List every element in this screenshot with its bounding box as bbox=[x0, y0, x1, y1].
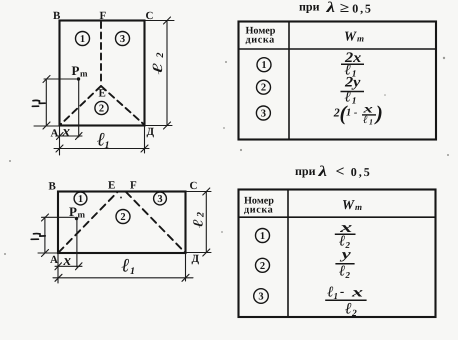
svg-text:m: m bbox=[80, 69, 88, 79]
svg-text:2: 2 bbox=[260, 261, 265, 272]
wire horizontal at Pm level bbox=[44, 78, 77, 80]
svg-text:-: - bbox=[340, 284, 344, 299]
svg-text:2: 2 bbox=[120, 212, 125, 223]
svg-text:<: < bbox=[336, 164, 345, 180]
svg-text:F: F bbox=[130, 180, 137, 192]
table 2 disk 1 bbox=[256, 229, 270, 243]
svg-text:C: C bbox=[190, 180, 198, 192]
svg-text:B: B bbox=[53, 10, 61, 22]
svg-text:1: 1 bbox=[78, 194, 83, 205]
svg-text:E: E bbox=[99, 88, 106, 100]
table 1 column divider bbox=[288, 22, 290, 140]
svg-text:W: W bbox=[344, 28, 357, 43]
svg-text:1: 1 bbox=[260, 231, 265, 242]
point Pm (d2) bbox=[75, 217, 78, 220]
svg-text:ℓ: ℓ bbox=[345, 301, 352, 318]
svg-text:x: x bbox=[350, 286, 363, 301]
dimension x (d1) bbox=[56, 135, 82, 137]
svg-text:B: B bbox=[49, 181, 57, 193]
disk number 1 (d2) bbox=[74, 192, 87, 205]
dimension x (d2) bbox=[55, 265, 82, 267]
svg-text:m: m bbox=[357, 34, 364, 44]
svg-text:ℓ: ℓ bbox=[122, 256, 130, 277]
svg-text:2: 2 bbox=[261, 83, 266, 94]
svg-text:1: 1 bbox=[80, 34, 85, 45]
svg-text:2: 2 bbox=[155, 53, 166, 59]
table 1 header underline bbox=[239, 48, 437, 50]
scan noise specks bbox=[4, 57, 449, 255]
wire Pm vertical thin line (d2) bbox=[76, 220, 78, 268]
bottom edge extension right (d1) bbox=[145, 125, 172, 127]
svg-text:λ: λ bbox=[325, 0, 335, 16]
label l2 (d2) bbox=[192, 212, 207, 228]
disk number 1 (d1) bbox=[76, 32, 90, 46]
dashed line A-E (d2) bbox=[59, 192, 118, 253]
disk number 2 (d2) bbox=[116, 210, 130, 224]
svg-text:ℓ: ℓ bbox=[192, 219, 207, 228]
dashed line E-A bbox=[60, 86, 101, 125]
extension lines below (d1) bbox=[59, 126, 61, 155]
table 1 disk 2 bbox=[257, 80, 271, 94]
svg-text:Д: Д bbox=[192, 253, 200, 265]
svg-text:1: 1 bbox=[352, 97, 357, 107]
svg-text:при: при bbox=[295, 164, 316, 178]
bottom edge extension left (d2) bbox=[38, 252, 58, 254]
svg-text:λ: λ bbox=[317, 164, 327, 180]
top edge extension right (d2) bbox=[186, 191, 211, 193]
dimension l1 (d1) bbox=[54, 148, 149, 150]
rectangle ABCD (diagram 1) bbox=[60, 21, 145, 126]
svg-text:1: 1 bbox=[105, 140, 110, 151]
dimension l2 (d2) bbox=[205, 192, 207, 253]
svg-text:ℓ: ℓ bbox=[363, 114, 368, 126]
svg-text:ℓ: ℓ bbox=[151, 62, 166, 74]
svg-text:2у: 2у bbox=[344, 75, 361, 91]
table 1 disk 3 bbox=[256, 106, 270, 120]
svg-text:x: x bbox=[63, 253, 72, 269]
wire horizontal at Pm level (d2) bbox=[42, 216, 75, 218]
small dot near apex (d2) bbox=[120, 197, 122, 199]
svg-text:2: 2 bbox=[99, 104, 104, 115]
top edge extension right (d1) bbox=[145, 20, 174, 22]
svg-text:0,5: 0,5 bbox=[351, 165, 372, 179]
dimension y (d2) line bbox=[44, 217, 46, 253]
svg-text:у: у bbox=[339, 248, 352, 263]
table 2 disk 3 bbox=[254, 289, 269, 304]
svg-text:): ) bbox=[374, 101, 383, 125]
table 2 column divider bbox=[287, 190, 289, 318]
svg-text:А: А bbox=[51, 128, 59, 140]
svg-text:1: 1 bbox=[261, 60, 266, 71]
svg-text:E: E bbox=[108, 180, 115, 192]
svg-text:3: 3 bbox=[261, 109, 266, 120]
label y (d1) bbox=[32, 100, 45, 106]
svg-text:2: 2 bbox=[345, 270, 351, 280]
disk number 2 (d1) bbox=[95, 101, 108, 114]
svg-text:Д: Д bbox=[147, 126, 155, 138]
rectangle ABCD (diagram 2) bbox=[58, 192, 186, 254]
svg-text:F: F bbox=[100, 10, 107, 22]
svg-text:1: 1 bbox=[369, 118, 373, 127]
svg-text:x: x bbox=[62, 124, 71, 140]
svg-text:m: m bbox=[355, 202, 362, 212]
svg-text:W: W bbox=[342, 197, 355, 212]
svg-text:диска: диска bbox=[246, 35, 275, 46]
svg-text:3: 3 bbox=[120, 34, 125, 45]
dimension l2 (d1) bbox=[166, 21, 168, 126]
bottom edge extension left (d1) bbox=[34, 125, 59, 127]
svg-text:≥: ≥ bbox=[340, 0, 350, 15]
svg-text:ℓ: ℓ bbox=[339, 263, 345, 279]
dimension y (d1) line bbox=[45, 79, 47, 126]
table 2 outer border bbox=[239, 190, 436, 318]
disk number 3 (d2) bbox=[154, 192, 167, 205]
svg-text:P: P bbox=[72, 63, 80, 78]
svg-text:при: при bbox=[299, 0, 320, 14]
svg-text:P: P bbox=[69, 204, 77, 219]
dashed line F-E bbox=[100, 22, 102, 85]
extension lines below (d2) bbox=[57, 253, 59, 283]
label l2 (d1) bbox=[151, 53, 166, 75]
svg-text:C: C bbox=[146, 10, 154, 22]
svg-text:m: m bbox=[78, 210, 86, 220]
table 2 disk 2 bbox=[256, 258, 270, 272]
disk number 3 (d1) bbox=[116, 32, 130, 46]
svg-text:3: 3 bbox=[258, 292, 263, 303]
dashed line E-D bbox=[101, 86, 144, 125]
svg-text:А: А bbox=[50, 254, 58, 266]
svg-text:3: 3 bbox=[157, 194, 162, 205]
bottom edge extension right (d2) bbox=[186, 252, 211, 254]
dimension l1 (d2) bbox=[53, 277, 193, 279]
svg-text:диска: диска bbox=[244, 204, 273, 215]
label y (d2) bbox=[31, 234, 45, 240]
point Pm (d1) bbox=[77, 77, 80, 80]
wire Pm vertical thin line bbox=[78, 80, 80, 137]
svg-text:2: 2 bbox=[196, 212, 207, 218]
svg-text:1 -: 1 - bbox=[346, 108, 358, 119]
table 2 header underline bbox=[239, 216, 436, 218]
table 1 outer border bbox=[239, 22, 437, 140]
svg-text:1: 1 bbox=[130, 266, 135, 277]
table 1 disk 1 bbox=[257, 58, 271, 72]
svg-text:0,5: 0,5 bbox=[352, 2, 372, 16]
svg-text:2: 2 bbox=[351, 309, 357, 319]
dashed line F-D (d2) bbox=[126, 192, 185, 253]
